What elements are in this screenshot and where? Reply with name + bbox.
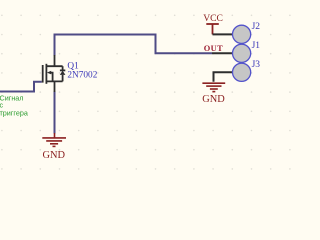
wire gate from left edge <box>0 82 42 92</box>
wire source to GND <box>54 92 56 134</box>
svg-text:OUT: OUT <box>204 44 224 53</box>
pin J2 <box>213 33 233 35</box>
wire drain vertical <box>54 34 56 56</box>
power port VCC symbol <box>206 24 219 34</box>
pin J3 <box>214 72 233 82</box>
ground symbol left <box>42 133 66 146</box>
svg-text:триггера: триггера <box>0 108 28 117</box>
svg-text:J2: J2 <box>252 22 261 32</box>
transistor Q1 body diode triangle <box>60 71 66 75</box>
svg-text:J1: J1 <box>252 41 261 51</box>
svg-text:Сигнал: Сигнал <box>0 94 24 103</box>
svg-text:GND: GND <box>43 150 66 161</box>
connector J2 pad <box>233 25 251 43</box>
transistor Q1 2N7002 <box>43 55 66 92</box>
pin J1 <box>212 52 233 54</box>
transistor Q1 body arrow <box>47 71 51 75</box>
svg-text:GND: GND <box>202 94 225 105</box>
svg-text:VCC: VCC <box>203 13 223 24</box>
ground symbol right <box>202 83 225 91</box>
svg-text:2N7002: 2N7002 <box>67 70 97 80</box>
connector J1 pad <box>233 44 251 62</box>
connector J3 pad <box>233 63 251 81</box>
svg-text:J3: J3 <box>252 60 261 70</box>
annotation: Сигнал с триггера <box>0 94 28 118</box>
wire OUT net: drain corner to J1 <box>55 35 213 54</box>
